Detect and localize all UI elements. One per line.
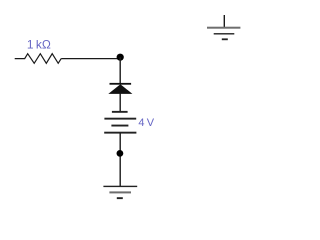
- battery V1 plate 2 (long): [104, 118, 136, 120]
- wire battery V1 minus down through node B to ground: [119, 133, 121, 186]
- battery V1 plate 4 (long): [104, 132, 136, 134]
- ground (bottom): [103, 186, 137, 199]
- resistor R1: [15, 54, 62, 64]
- node A junction dot: [117, 54, 124, 61]
- ground (top right, floating): [207, 15, 240, 40]
- wire from R1 to node A: [61, 58, 120, 60]
- diode D1 (triangle, anode below pointing up): [108, 84, 132, 94]
- wire node A down to diode D1 cathode: [119, 57, 121, 83]
- diode D1 (cathode bar): [110, 83, 132, 85]
- wire diode D1 anode to battery V1 plus: [119, 94, 121, 112]
- battery V1 plate 3 (short): [111, 125, 128, 127]
- svg-text:1kΩ: 1kΩ: [27, 38, 51, 52]
- battery V1 plate 1 (short): [112, 111, 128, 113]
- svg-text:4V: 4V: [138, 117, 154, 129]
- node B junction dot: [117, 150, 124, 157]
